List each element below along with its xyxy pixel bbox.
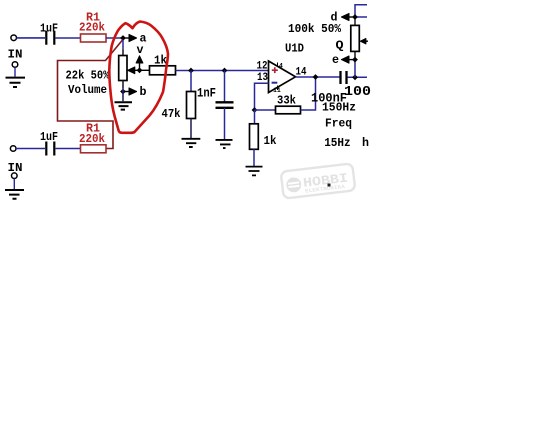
wire to 47k — [190, 71, 192, 92]
wire C1 to R1 — [56, 37, 81, 39]
wire op-amp output pin 14 — [296, 76, 341, 78]
junction node (1nF top) — [222, 68, 228, 74]
wiper node dot — [137, 67, 143, 73]
resistor 33k — [276, 94, 301, 114]
resistor 47k — [162, 92, 196, 122]
node d dot — [352, 14, 358, 20]
red annotation blob — [109, 22, 168, 133]
input terminal J2 (bottom IN) — [8, 146, 23, 175]
svg-text:d: d — [331, 11, 338, 25]
wire 1k to ground — [253, 149, 255, 166]
svg-text:b: b — [140, 85, 147, 99]
wire node to 1k (vertical) — [254, 110, 256, 124]
input terminal J1 (top IN) — [8, 35, 23, 61]
svg-text:e: e — [332, 53, 339, 67]
node b junction — [120, 89, 126, 95]
ground (top IN) — [6, 62, 26, 87]
node e dot — [352, 57, 358, 63]
svg-text:1uF: 1uF — [40, 22, 58, 36]
svg-text:15Hz: 15Hz — [324, 136, 351, 150]
svg-text:220k: 220k — [79, 21, 105, 35]
label 15Hz — [324, 136, 351, 150]
wire J2 to C2 — [16, 148, 45, 150]
junction node (47k top) — [188, 68, 194, 74]
potentiometer P1 22k Volume — [66, 56, 128, 98]
wire node up to pot P2 — [354, 51, 356, 77]
wire node to 33k — [255, 109, 276, 111]
arrow b — [123, 85, 147, 99]
svg-text:220k: 220k — [79, 132, 105, 146]
wire J1 to C1 — [17, 37, 46, 39]
dark red net from node a to lower R1 — [58, 40, 123, 149]
wire 47k to ground — [190, 119, 192, 139]
wire pot top to corner — [355, 5, 367, 17]
svg-text:IN: IN — [8, 47, 23, 61]
pin 12 label — [257, 61, 268, 73]
capacitor 100nF (output) — [311, 71, 347, 106]
output node junction — [313, 74, 319, 80]
power pin 11 mark — [273, 86, 281, 95]
svg-text:1k: 1k — [154, 54, 167, 68]
svg-text:100k 50%: 100k 50% — [288, 23, 341, 36]
wire pot bottom to node b — [122, 81, 124, 92]
ground (pot P1) — [115, 92, 133, 110]
ground (1nF) — [216, 140, 233, 148]
pin 14 label — [296, 67, 307, 79]
watermark logo — [281, 163, 356, 198]
svg-text:v: v — [137, 43, 144, 57]
capacitor C1 1uF — [40, 22, 58, 45]
svg-text:12: 12 — [257, 61, 268, 73]
svg-text:Q: Q — [336, 39, 344, 53]
svg-text:150Hz: 150Hz — [322, 101, 356, 115]
resistor 1k (vertical) — [250, 124, 277, 150]
capacitor 1nF — [197, 86, 234, 108]
wire 1nF to ground — [224, 108, 226, 140]
resistor R1 220k (top) — [79, 10, 106, 42]
ground (bottom IN) — [5, 173, 24, 199]
arrow v (wiper direction) — [136, 43, 143, 70]
svg-text:1k: 1k — [264, 134, 277, 148]
feedback node junction — [252, 107, 258, 113]
wire C2 to R1b — [56, 148, 81, 150]
P2 wiper arrow — [360, 39, 368, 44]
svg-text:1nF: 1nF — [197, 86, 216, 100]
ground (47k) — [182, 139, 201, 147]
wire pin 13 to feedback node — [255, 83, 269, 110]
P1 wiper arrow — [128, 67, 150, 74]
resistor R1 220k (bottom) — [79, 122, 106, 153]
label 150Hz — [322, 101, 356, 115]
capacitor C2 1uF — [40, 130, 58, 156]
wire d-node to right — [355, 16, 367, 18]
resistor 1k (horizontal) — [150, 54, 176, 75]
ground (1k) — [246, 167, 263, 176]
svg-text:Volume: Volume — [68, 83, 107, 97]
svg-text:4: 4 — [279, 63, 283, 70]
wire cap to right node — [348, 76, 368, 78]
svg-text:33k: 33k — [277, 94, 296, 108]
pin 13 label — [257, 72, 268, 84]
arrow d — [331, 11, 356, 25]
op-amp U1D — [269, 42, 305, 93]
svg-text:Freq: Freq — [325, 117, 352, 131]
svg-text:13: 13 — [257, 72, 268, 84]
wire to 1nF — [224, 71, 226, 102]
wire 1k to op-amp pin 12 — [176, 70, 269, 72]
label Freq — [325, 117, 352, 131]
wire node a to pot P1 — [122, 40, 124, 56]
label h — [362, 136, 369, 150]
node a junction — [120, 35, 126, 41]
wire pot2 top pin — [354, 17, 356, 26]
svg-text:1uF: 1uF — [40, 130, 58, 144]
arrow e — [332, 53, 355, 67]
power pin 4 mark — [278, 63, 284, 70]
svg-text:U1D: U1D — [285, 42, 304, 56]
stray dark dot on watermark — [328, 184, 331, 187]
arrow a — [123, 31, 147, 45]
svg-text:22k 50%: 22k 50% — [66, 69, 111, 83]
node e junction on output — [352, 74, 358, 80]
svg-text:47k: 47k — [162, 107, 181, 121]
wire R1 to node a — [106, 37, 121, 39]
potentiometer P2 100k — [288, 23, 359, 52]
label 100 (cut cap) — [344, 85, 371, 100]
svg-text:100: 100 — [344, 85, 371, 100]
svg-text:h: h — [362, 136, 369, 150]
wire 33k to output node — [301, 77, 316, 110]
